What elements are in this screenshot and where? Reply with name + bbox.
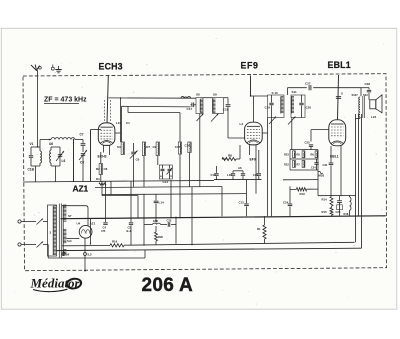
svg-text:ECH3: ECH3 (99, 61, 123, 71)
wire v176 (175, 217, 177, 225)
antenna coil V1 (31, 146, 40, 148)
svg-text:R5: R5 (297, 153, 301, 157)
tube shield dashes (103, 100, 105, 122)
wire HT junction (90, 218, 92, 244)
svg-text:K58: K58 (153, 219, 158, 223)
power transformer secondary (62, 205, 64, 256)
wire antenna lead (37, 71, 39, 148)
wire sec top (62, 206, 88, 226)
wire bias drop (317, 170, 319, 196)
chassis dashed boundary (23, 74, 387, 271)
capacitor Cc (242, 171, 244, 173)
power transformer primary (48, 205, 57, 256)
wire bus to IF2 (251, 95, 268, 97)
svg-text:5,3: 5,3 (88, 253, 92, 257)
HT rail (61, 216, 386, 219)
wire AZ1 ground (84, 256, 86, 271)
wire v180b (179, 187, 181, 219)
wire net 195 (102, 195, 138, 197)
svg-text:S127: S127 (352, 93, 359, 97)
wire EBL1 k2 (340, 146, 342, 196)
mains terminal 1 (18, 220, 21, 223)
grid network rails (290, 149, 318, 151)
wire right drop a (355, 119, 357, 243)
capacitor C15 (178, 142, 181, 154)
svg-text:C15: C15 (175, 145, 181, 149)
antenna (31, 65, 37, 71)
svg-text:C13: C13 (239, 201, 245, 205)
power transformer core (58, 204, 60, 258)
osc coil (121, 142, 124, 155)
svg-text:C19: C19 (265, 106, 271, 110)
svg-text:C22: C22 (167, 219, 172, 223)
svg-text:C28: C28 (365, 82, 371, 86)
IF2 trimmer arrows (269, 117, 276, 125)
wire ECH3 grid (90, 130, 92, 182)
IF transformer 1 primary (196, 98, 203, 114)
svg-text:EF9: EF9 (250, 158, 256, 162)
wire vert 2 (121, 106, 123, 142)
svg-text:206 A: 206 A (142, 275, 194, 296)
wire v192 (191, 187, 193, 245)
ground bus left (23, 180, 214, 182)
svg-text:R2: R2 (96, 167, 100, 171)
svg-text:R14: R14 (322, 198, 328, 202)
svg-text:EF9: EF9 (241, 60, 259, 70)
capacitor C27 (308, 85, 310, 90)
svg-text:A6: A6 (238, 166, 242, 170)
wire osc grid (73, 140, 75, 182)
svg-text:C6: C6 (136, 158, 140, 162)
capacitor Cx2 (289, 186, 291, 203)
heater terminal 53 (84, 253, 87, 256)
bias choke R18 (350, 197, 352, 210)
svg-text:R6: R6 (311, 153, 315, 157)
svg-text:S: S (341, 92, 343, 96)
tube EBL1 (329, 120, 346, 146)
svg-text:C1B: C1B (28, 168, 35, 172)
wire EF9 label lead (250, 76, 252, 97)
ground bus right seg (283, 179, 318, 181)
wire right drop c (361, 119, 363, 249)
svg-text:R15: R15 (322, 210, 328, 214)
svg-text:R4: R4 (96, 177, 100, 181)
heater wire (62, 245, 110, 247)
earth terminal (51, 67, 54, 70)
trimmer box C14 (159, 165, 172, 179)
IF1 trimmer arrows (197, 114, 204, 122)
svg-text:ZF = 473 kHz: ZF = 473 kHz (44, 97, 87, 104)
wire R8 left (222, 158, 227, 160)
svg-text:C27: C27 (305, 81, 311, 85)
resistor R9 (156, 142, 159, 156)
aerial series coil L2 (40, 139, 51, 141)
cathode resistor R2 (99, 164, 102, 175)
capacitor C21 (258, 150, 260, 173)
bus mid 194 (102, 194, 246, 195)
svg-text:R18: R18 (344, 212, 349, 216)
resistor R7 (142, 142, 145, 156)
mains switch (27, 221, 36, 223)
wire grid line (128, 112, 180, 114)
caps ground bus (214, 179, 262, 181)
wire AZ1 bottom (84, 238, 86, 252)
capacitor C24b (314, 162, 318, 164)
capacitor L14 (155, 194, 157, 200)
svg-text:R7: R7 (146, 145, 150, 149)
svg-text:S 10: S 10 (272, 91, 279, 95)
svg-text:S8: S8 (196, 93, 200, 97)
svg-text:V1: V1 (30, 142, 34, 146)
svg-text:C24: C24 (283, 201, 289, 205)
resistor R22 (293, 160, 296, 167)
svg-text:L24: L24 (371, 115, 377, 119)
svg-text:R20: R20 (158, 235, 163, 239)
IF transformer 2 primary (268, 95, 285, 118)
resistor R17 (263, 225, 266, 239)
mains terminal 2 (18, 243, 21, 246)
svg-text:C8: C8 (104, 167, 108, 171)
wire AVC line (122, 105, 191, 108)
svg-text:475: 475 (101, 229, 106, 233)
wire EBL1 anode (338, 75, 339, 120)
svg-text:C21: C21 (253, 173, 259, 177)
resistor R26 (302, 151, 305, 158)
svg-text:C4: C4 (103, 226, 107, 230)
wire IF1 top (203, 97, 213, 99)
capacitor Cx1 (246, 180, 248, 204)
wire ECH3 anode top (107, 76, 108, 123)
capacitor C31 (329, 162, 334, 164)
svg-text:U6: U6 (49, 142, 53, 146)
svg-text:S3: S3 (117, 145, 121, 149)
heater bus (56, 248, 362, 250)
IF transformer 2 secondary (291, 95, 305, 118)
wire spk vert (360, 88, 362, 97)
wire out sec (359, 117, 361, 119)
resistor R8 (222, 157, 236, 160)
svg-text:R1: R1 (257, 227, 261, 231)
wire EF9 screen drop (267, 118, 269, 217)
label MD3 (318, 171, 323, 173)
wire v144 (143, 194, 145, 225)
wire EBL1 grid (311, 129, 329, 131)
resistor R15 (330, 208, 333, 216)
svg-text:C16: C16 (185, 144, 191, 148)
wire anode bus (109, 97, 197, 99)
svg-text:R19: R19 (300, 192, 306, 196)
heater terminal 54 (62, 253, 65, 256)
capacitor Ca (216, 166, 218, 173)
svg-text:C20: C20 (306, 106, 312, 110)
resistor R27 (302, 160, 305, 167)
svg-text:ECH3: ECH3 (98, 155, 107, 159)
output transformer (359, 97, 360, 117)
svg-text:C9: C9 (153, 145, 157, 149)
capacitor C7 (82, 140, 84, 144)
svg-text:EBL1: EBL1 (328, 60, 351, 70)
svg-text:R16: R16 (112, 240, 118, 244)
capacitor C16col (188, 142, 191, 153)
capacitor C26 (336, 96, 341, 98)
padder C13 (131, 151, 136, 153)
wire v171 (170, 180, 172, 218)
capacitor C28 (361, 87, 369, 89)
wire EBL1 k1 (330, 146, 332, 162)
wire c13 col (110, 181, 112, 194)
svg-text:AZ1: AZ1 (73, 184, 89, 194)
svg-text:S9: S9 (213, 93, 217, 97)
svg-text:C24: C24 (311, 167, 316, 170)
tuned coil L6 (51, 146, 60, 148)
coil R13 (153, 223, 161, 224)
capacitor C22 (161, 224, 168, 226)
wire vert from bus (120, 98, 122, 142)
svg-text:R7: R7 (297, 163, 301, 167)
resistor R14 (330, 197, 333, 207)
wire sec mid (66, 238, 79, 240)
variable capacitor C9 (81, 153, 85, 155)
bias top rail (318, 194, 356, 196)
IF transformer 1 secondary (213, 98, 224, 114)
tube EF9 (245, 122, 263, 145)
svg-text:C1: C1 (126, 121, 130, 125)
resistor R23 (293, 151, 296, 158)
svg-text:S11: S11 (292, 90, 298, 94)
resistor R16 (110, 244, 124, 247)
svg-text:L6: L6 (62, 159, 66, 163)
svg-text:L16: L16 (227, 173, 232, 177)
wire IF2 bypass drop (271, 118, 273, 217)
bus mid 187 (95, 187, 222, 188)
svg-text:S23: S23 (363, 93, 368, 97)
svg-text:R8: R8 (228, 154, 232, 158)
svg-text:S7: S7 (68, 214, 72, 218)
svg-text:b: b (171, 174, 173, 178)
IF1 capacitor C17 (191, 103, 193, 108)
variable capacitor C10 (58, 154, 62, 156)
capacitor Cb (232, 171, 234, 173)
svg-text:54: 54 (66, 253, 70, 257)
svg-text:C16: C16 (211, 173, 217, 177)
RF choke loops (181, 97, 191, 99)
electrolytic C29 (337, 200, 342, 202)
svg-text:C31: C31 (323, 163, 328, 167)
svg-text:5x3: 5x3 (67, 239, 72, 243)
svg-text:C25: C25 (305, 141, 311, 145)
svg-text:C3: C3 (80, 161, 84, 165)
mains lead under transformer (47, 245, 49, 259)
IF1 capacitor C18 (227, 98, 229, 104)
svg-text:R23: R23 (284, 153, 289, 157)
wire screen bus (288, 87, 307, 89)
svg-text:R22: R22 (284, 163, 289, 167)
svg-text:U4: U4 (77, 221, 81, 225)
resistor R6 (315, 151, 318, 158)
wire right drop b (358, 119, 360, 216)
wire IF1 prim drop (199, 114, 201, 187)
svg-text:L3: L3 (240, 122, 244, 126)
bias bus (124, 242, 355, 245)
svg-text:MD3: MD3 (319, 174, 325, 178)
svg-text:C7: C7 (80, 133, 84, 137)
wire EF9 grid (228, 137, 245, 139)
svg-text:C29: C29 (336, 210, 341, 214)
rectifier AZ1 (79, 225, 92, 238)
wire EF9 cathode (249, 145, 251, 155)
svg-text:C17: C17 (187, 107, 193, 111)
resistor R20 (155, 232, 158, 241)
wire IF2 sec down (291, 118, 293, 150)
resistor R19 (290, 189, 296, 191)
tube ECH3 (98, 123, 115, 145)
loudspeaker (370, 100, 376, 109)
svg-text:L14: L14 (159, 201, 165, 205)
